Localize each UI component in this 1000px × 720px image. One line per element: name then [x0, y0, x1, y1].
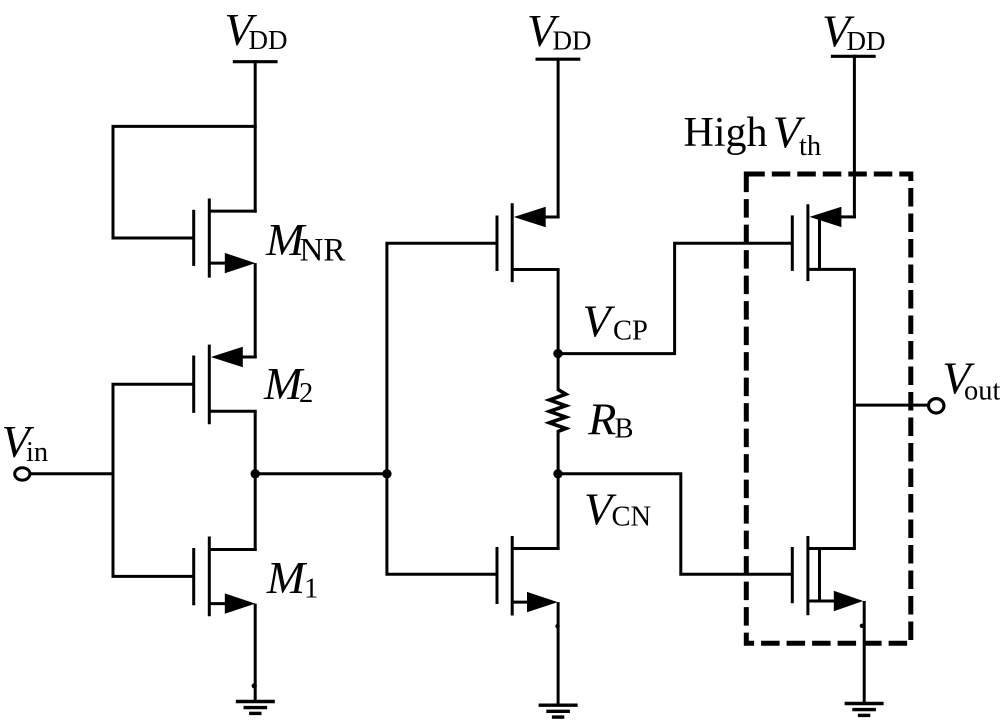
svg-text:out: out [964, 376, 1000, 407]
svg-text:V: V [583, 296, 616, 347]
svg-text:B: B [615, 413, 634, 444]
svg-text:CP: CP [613, 315, 648, 346]
svg-text:2: 2 [299, 378, 313, 409]
svg-text:1: 1 [304, 574, 318, 605]
svg-text:NR: NR [300, 233, 346, 269]
svg-text:CN: CN [612, 502, 652, 533]
svg-text:in: in [26, 437, 48, 468]
svg-text:R: R [587, 393, 616, 444]
svg-text:M: M [266, 552, 308, 603]
svg-text:DD: DD [249, 25, 288, 55]
svg-text:DD: DD [553, 25, 592, 55]
svg-text:DD: DD [847, 26, 886, 56]
svg-text:High: High [684, 110, 768, 156]
svg-text:th: th [799, 131, 821, 162]
